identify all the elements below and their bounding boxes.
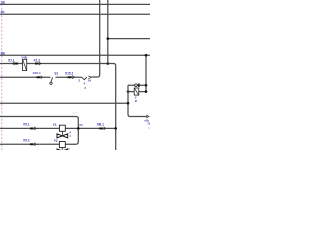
svg-text:b: b xyxy=(148,126,150,130)
svg-text:X5.1: X5.1 xyxy=(23,123,30,127)
terminal X1:2 contact bar xyxy=(35,63,39,65)
branch wire from vertical B to right edge xyxy=(108,38,150,40)
terminal X1:1 chevron xyxy=(13,62,15,65)
svg-text:24: 24 xyxy=(79,123,83,127)
fuse F1 (rect with diagonal) xyxy=(23,59,27,70)
svg-text:B: B xyxy=(135,99,137,103)
svg-text:1P4: 1P4 xyxy=(73,111,78,115)
solenoid valve Y2 coil box xyxy=(59,142,65,148)
terminal X1:2 chevron xyxy=(39,62,41,65)
terminal X15.2 chevron xyxy=(72,76,74,79)
svg-text:X15.1: X15.1 xyxy=(33,71,41,75)
svg-text:1B: 1B xyxy=(1,1,6,5)
switch S1 roller circle xyxy=(50,82,52,84)
svg-text:XB.1: XB.1 xyxy=(97,123,104,127)
junction dot wire3 / vertical F xyxy=(145,54,148,57)
interruption arrow on wire 5 (v dip) xyxy=(82,77,87,80)
wire 5 (row with switch S1) left part xyxy=(0,76,51,78)
svg-text:1b: 1b xyxy=(1,10,5,14)
connector pin bar xyxy=(138,83,139,87)
svg-text:X5.2: X5.2 xyxy=(23,138,30,142)
svg-text:24: 24 xyxy=(88,78,92,82)
vertical wire F from wire3 down to branch2 xyxy=(145,55,147,91)
svg-text:X15.2: X15.2 xyxy=(65,72,74,76)
wire L2 (top bus 2) xyxy=(0,13,150,15)
svg-text:S1: S1 xyxy=(54,72,58,76)
wire 4 (row with fuse, ends turning down at x=115.7) xyxy=(0,64,116,151)
switch S1 lever xyxy=(51,77,53,82)
wire 6 xyxy=(0,102,128,104)
valve Y2 body (bowtie, clipped) xyxy=(57,149,68,153)
terminal X5.1 chevron xyxy=(34,127,36,130)
junction dot wire6 / vertical E xyxy=(127,102,130,105)
solenoid valve Y1 coil box xyxy=(59,125,65,131)
wire 5 middle part after switch xyxy=(56,76,82,78)
junction dot at branch start xyxy=(107,37,110,40)
wire L3 (bus 3) xyxy=(0,54,150,56)
page border (magenta dashed) xyxy=(1,4,3,150)
wire 9 left part xyxy=(0,143,59,145)
junction dot branch2 right xyxy=(145,90,148,93)
valve Y1 stem xyxy=(61,131,63,136)
terminal X5.2 chevron xyxy=(34,143,36,146)
svg-text:1B: 1B xyxy=(147,121,150,125)
fuse F2 xyxy=(134,88,139,95)
junction dot on wire 4 at vertical B xyxy=(107,62,110,65)
wire 8 right part to vertical C xyxy=(65,127,115,129)
branch 2 wire (fuse row) xyxy=(128,91,146,93)
wire 7 going right, down at x=78.3, into valve Y2 return xyxy=(0,117,78,145)
branch 1 wire (connector row) xyxy=(128,84,146,86)
svg-text:<: < xyxy=(68,147,70,150)
terminal X5.2 contact bar xyxy=(30,143,34,145)
terminal X15.2 contact bar xyxy=(68,76,72,78)
wire L1 (top bus 1) xyxy=(0,3,150,5)
terminal X15.1 chevron xyxy=(41,76,43,79)
junction dot branch2 left xyxy=(127,90,130,93)
interruption arrowhead xyxy=(88,76,91,79)
wire 5 right segment turning up at x=99.7 xyxy=(91,0,99,77)
junction dot wire8 / vertical C xyxy=(114,127,117,130)
svg-text:2B: 2B xyxy=(1,51,6,55)
terminal X15.1 contact bar xyxy=(37,76,41,78)
junction dot wire8 / vertical D xyxy=(77,127,80,130)
terminal XB.1 contact bar xyxy=(99,128,103,130)
valve Y1 body (bowtie) xyxy=(57,134,68,138)
terminal X5.1 contact bar xyxy=(30,128,34,130)
junction dot branch1 / vertical F xyxy=(145,84,148,87)
svg-text:Y1: Y1 xyxy=(53,123,57,127)
svg-text:X1.1: X1.1 xyxy=(8,58,15,62)
interruption arrowhead right xyxy=(146,115,149,118)
connector socket circle xyxy=(135,84,138,87)
terminal X1:1 contact bar xyxy=(15,63,18,65)
vertical wire B from top to wire4 junction xyxy=(107,0,109,64)
svg-text:Y2: Y2 xyxy=(54,139,58,143)
valve Y2 stem xyxy=(61,148,63,150)
terminal XB.1 chevron xyxy=(104,127,106,130)
vertical wire E from branch1 down, turning right into arrow wire xyxy=(128,85,147,116)
wire 8 left part xyxy=(0,127,59,129)
